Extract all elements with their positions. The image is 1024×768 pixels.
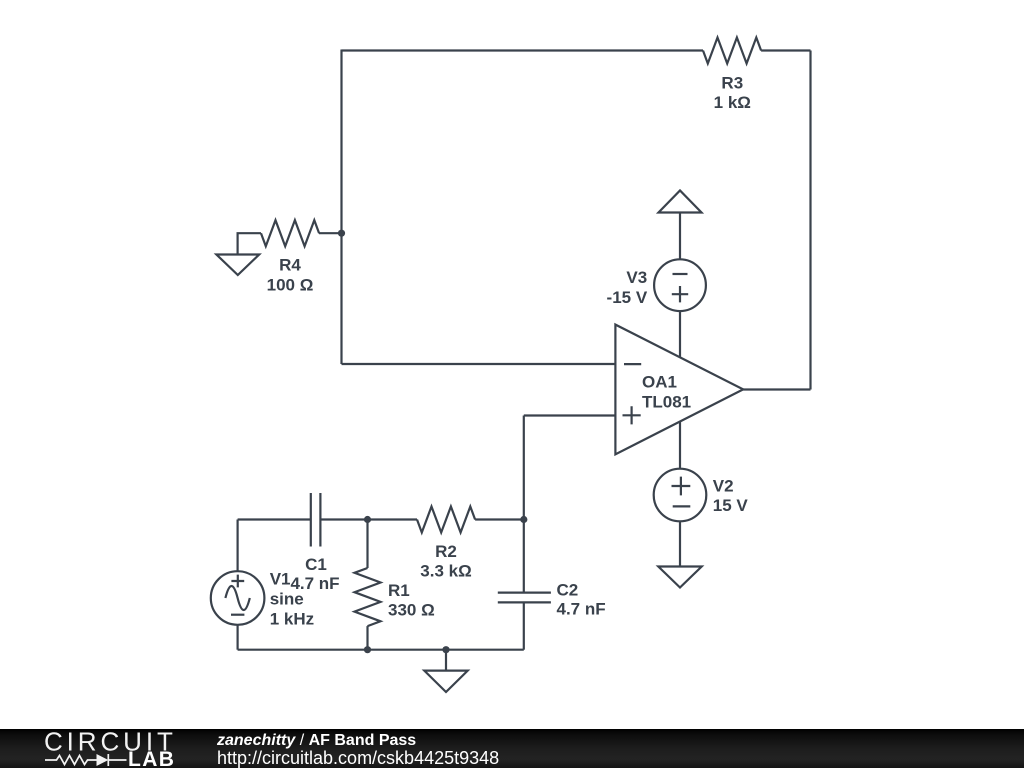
svg-text:1 kΩ: 1 kΩ (714, 93, 751, 112)
wire node to R1 (366, 520, 368, 569)
svg-text:1 kHz: 1 kHz (270, 609, 314, 628)
wire top rail right of R3 (761, 49, 810, 51)
wire bottom rail (238, 649, 524, 651)
svg-text:R1: R1 (388, 581, 410, 600)
svg-text:330 Ω: 330 Ω (388, 601, 435, 620)
wire plus input vertical (523, 416, 525, 520)
wire V1 to C1 (238, 518, 311, 520)
node C1-R1-R2 (364, 516, 371, 523)
V2 minus mark (673, 505, 691, 507)
svg-text:15 V: 15 V (713, 496, 749, 515)
voltage source V3 (654, 259, 706, 311)
V1 plus mark (231, 575, 244, 588)
svg-text:V2: V2 (713, 476, 734, 495)
svg-text:R4: R4 (279, 256, 301, 275)
wire ground stub bottom (445, 650, 447, 671)
svg-text:R3: R3 (721, 73, 743, 92)
svg-text:3.3 kΩ: 3.3 kΩ (420, 561, 471, 580)
wire op-amp to V2 (679, 422, 681, 469)
svg-text:C2: C2 (557, 581, 579, 600)
V3 minus mark (673, 273, 688, 275)
wire R1 bottom (366, 626, 368, 650)
wire left vertical (340, 50, 342, 365)
V1 minus mark (231, 614, 244, 616)
OA1 plus pin mark (623, 406, 641, 424)
wire node to C2 (523, 520, 525, 593)
ground bottom (424, 671, 467, 692)
svg-text:LAB: LAB (128, 748, 175, 768)
footer title text (217, 731, 416, 750)
svg-text:V3: V3 (626, 268, 647, 287)
svg-text:TL081: TL081 (642, 392, 691, 411)
voltage source V2 (654, 469, 707, 522)
V1 sine mark (225, 586, 249, 610)
wire R2 to node (475, 518, 524, 520)
op-amp OA1 (615, 325, 743, 455)
resistor R3 (703, 38, 761, 64)
node R2-C2-opamp (520, 516, 527, 523)
wire C1 to node (320, 518, 367, 520)
wire C2 bottom (523, 602, 525, 649)
resistor R4 (261, 220, 319, 246)
node ground bottom (442, 646, 449, 653)
wire V1 top (237, 520, 239, 572)
ground below V2 (658, 567, 701, 588)
voltage source V1 (211, 571, 265, 625)
footer bar (0, 729, 1024, 768)
wire right vertical (809, 51, 811, 390)
footer url text (217, 749, 499, 768)
capacitor C2 (498, 593, 551, 603)
svg-text:4.7 nF: 4.7 nF (557, 599, 606, 618)
wire node to R2 (368, 518, 418, 520)
OA1 minus pin mark (624, 363, 641, 365)
svg-text:-15 V: -15 V (607, 288, 648, 307)
CircuitLab logo (0, 729, 200, 768)
node R1 bottom (364, 646, 371, 653)
wire V2 to ground (679, 521, 681, 566)
V2 plus mark (672, 477, 691, 496)
wire output to right vertical (743, 388, 810, 390)
wire plus input horizontal (524, 414, 616, 416)
capacitor C1 (311, 493, 321, 547)
wire minus input (342, 363, 616, 365)
node at R4 junction (338, 230, 345, 237)
svg-text:OA1: OA1 (642, 372, 677, 391)
power arrow VCC above V3 (659, 191, 702, 213)
svg-text:V1: V1 (270, 569, 291, 588)
svg-text:sine: sine (270, 589, 304, 608)
V3 plus mark (672, 286, 688, 302)
wire arrow to V3 (679, 213, 681, 260)
svg-text:R2: R2 (435, 542, 457, 561)
wire V1 bottom (237, 625, 239, 650)
resistor R1 (355, 568, 381, 626)
svg-text:100 Ω: 100 Ω (267, 275, 314, 294)
resistor R2 (417, 507, 475, 533)
wire R4 right lead (319, 232, 342, 234)
wire R4 left step (238, 233, 261, 254)
ground at R4 (216, 255, 259, 276)
svg-text:C1: C1 (305, 555, 327, 574)
wire V3 to op-amp (679, 311, 681, 357)
wire top rail left of R3 (342, 49, 704, 51)
